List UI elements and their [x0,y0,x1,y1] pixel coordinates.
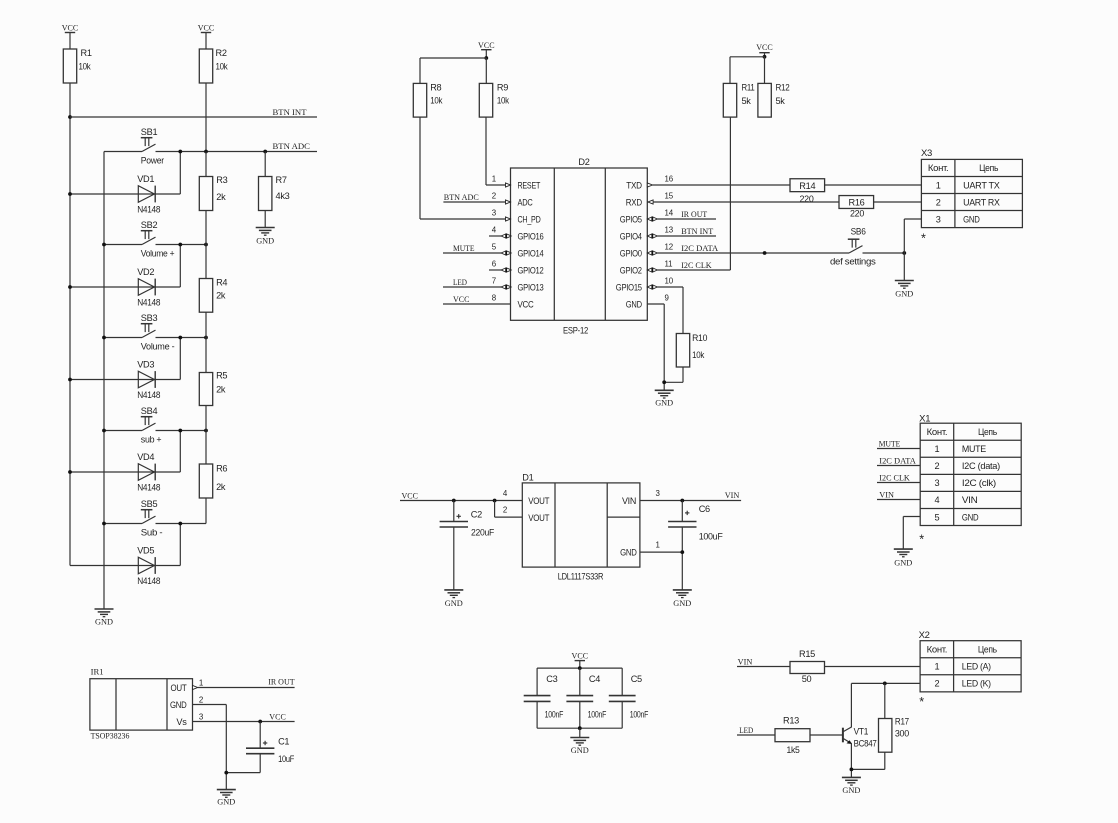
wire decoupling bottom rail [537,727,622,729]
pin label RXD [626,197,643,207]
resistor R14 [790,179,825,204]
svg-text:UART TX: UART TX [963,180,1000,190]
wire R1 bus vertical [69,83,71,566]
svg-text:Vs: Vs [176,717,187,727]
wire net VIN to X1 [877,490,920,500]
svg-text:LDL1117S33R: LDL1117S33R [558,572,604,582]
wire VT1 emitter to GND [850,744,852,778]
svg-text:220uF: 220uF [471,528,495,538]
svg-text:100uF: 100uF [699,532,723,542]
svg-text:VIN: VIN [622,496,636,506]
svg-text:4k3: 4k3 [276,191,290,201]
pin label GPIO12 [518,265,544,275]
node emitter junction [850,768,854,772]
svg-text:2: 2 [199,696,203,705]
power symbol VCC (R11 R12) [756,42,773,57]
node SB2-R junction [204,243,208,247]
svg-text:1: 1 [656,541,660,550]
svg-text:2k: 2k [216,291,226,301]
svg-text:GND: GND [95,617,113,627]
svg-text:N4148: N4148 [137,390,160,400]
ground (C6) [673,590,692,608]
connector X3 [921,148,1022,246]
switch SB2 [104,220,206,258]
svg-text:X3: X3 [921,148,932,158]
pin label GPIO14 [518,248,544,258]
pin number 15 [665,192,674,201]
diode VD2 [70,245,180,308]
svg-text:10k: 10k [216,61,229,71]
wire Vs pin 3 to VCC [193,712,295,722]
svg-text:10k: 10k [497,95,510,105]
wire net VCC to D1 [400,490,522,500]
power symbol VCC (R2) [198,23,215,50]
wire net I2C DATA GPIO0 pin 12 [647,243,849,255]
wire RXD pin 15 to R16 [648,200,839,204]
capacitor C4 [566,668,606,728]
svg-text:BTN INT: BTN INT [273,107,308,117]
pin number 2 (D1) [503,506,507,515]
pin arrow RESET [506,183,511,187]
svg-text:R15: R15 [799,649,815,659]
svg-text:1: 1 [199,679,203,688]
svg-text:I2C CLK: I2C CLK [681,260,712,270]
svg-text:R14: R14 [799,181,815,191]
svg-text:5: 5 [935,512,940,522]
pin label GPIO0 [620,248,642,258]
svg-text:ESP-12: ESP-12 [563,326,588,336]
svg-text:GPIO2: GPIO2 [620,265,642,275]
svg-text:LED: LED [739,725,753,735]
pin label GPIO5 [620,214,642,224]
svg-text:R2: R2 [216,48,227,58]
switch SB3 [104,313,206,351]
power symbol VCC (C3-C5) [572,651,589,669]
svg-text:RXD: RXD [626,197,643,207]
wire net IR OUT GPIO5 pin 14 [647,209,716,221]
svg-text:I2C (clk): I2C (clk) [962,478,996,488]
pin arrow ADC [506,200,511,204]
node VCC junction (R12) [763,55,767,59]
pin label ADC [518,197,534,207]
svg-text:R16: R16 [849,198,865,208]
capacitor C6 [668,501,723,590]
svg-text:VD5: VD5 [137,545,154,555]
node GND pin 9 junction [662,380,666,384]
svg-text:R17: R17 [895,717,909,727]
svg-text:MUTE: MUTE [453,243,475,253]
node VD4 anode junction [68,470,72,474]
wire net BTN INT [70,107,317,117]
wire R11 to I2C CLK [729,117,731,270]
node VCC junction (R9) [484,56,488,60]
svg-text:MUTE: MUTE [879,439,901,449]
svg-text:GPIO16: GPIO16 [518,231,544,241]
svg-text:X2: X2 [919,630,930,640]
svg-text:GPIO0: GPIO0 [620,248,642,258]
switch SB1 [104,127,164,165]
svg-text:VCC: VCC [62,23,79,33]
pin number 12 [665,243,673,252]
svg-text:220: 220 [850,209,864,219]
wire GND pin 2 (IR1) [193,696,227,790]
svg-text:10k: 10k [79,61,92,71]
resistor R9 [479,83,509,117]
svg-text:GND: GND [655,397,673,407]
svg-text:GND: GND [895,288,913,298]
pin label GPIO2 [620,265,642,275]
svg-text:VD1: VD1 [137,174,154,184]
svg-text:TXD: TXD [626,180,642,190]
svg-text:GPIO5: GPIO5 [620,214,642,224]
svg-text:GND: GND [571,745,589,755]
wire decoupling top rail [537,667,622,669]
svg-text:10uF: 10uF [278,754,295,764]
svg-text:GND: GND [445,598,463,608]
wire net I2C CLK to X1 [877,473,920,483]
svg-text:VT1: VT1 [854,727,869,737]
svg-text:1: 1 [492,175,496,184]
pin number 16 [665,175,674,184]
pin number 4 [492,226,497,235]
svg-text:2: 2 [492,192,496,201]
svg-text:ADC: ADC [518,197,534,207]
svg-text:11: 11 [665,260,673,269]
connector X2 [919,630,1022,709]
wire net BTN ADC [156,141,318,152]
pin number 4 (D1) [503,489,508,498]
resistor R1 [63,48,92,83]
svg-text:X1: X1 [919,414,930,424]
svg-text:N4148: N4148 [137,576,160,586]
switch SB4 [104,406,206,444]
pin label GPIO16 [518,231,544,241]
svg-text:16: 16 [665,175,674,184]
op-amp U1? no - IC D2 ESP-12 box [511,157,648,336]
pin number 9 [665,294,670,303]
svg-text:IR1: IR1 [91,666,104,676]
resistor R11 [723,83,754,117]
svg-text:VCC: VCC [198,23,215,33]
svg-text:SB4: SB4 [141,406,158,416]
svg-text:1: 1 [936,180,941,190]
wire TXD pin 16 to R14 [647,183,790,187]
ground (X3) [895,281,914,299]
svg-text:I2C DATA: I2C DATA [879,456,916,466]
svg-text:IR OUT: IR OUT [268,677,295,687]
svg-text:R7: R7 [276,175,287,185]
wire rail to ground [579,728,581,737]
svg-text:LED (A): LED (A) [962,662,991,672]
node switch bus junction [102,429,106,433]
svg-text:Цепь: Цепь [979,163,998,173]
pin label GPIO4 [620,231,642,241]
resistor R3 [199,152,227,245]
svg-text:1k5: 1k5 [787,745,800,755]
ground (IR1) [217,790,236,807]
svg-text:GPIO13: GPIO13 [518,282,544,292]
capacitor C5 [609,668,649,728]
svg-text:50: 50 [802,674,812,684]
svg-text:R9: R9 [497,83,508,93]
svg-text:sub +: sub + [141,434,162,444]
svg-text:2k: 2k [216,192,226,202]
svg-text:TSOP38236: TSOP38236 [91,731,130,741]
svg-text:3: 3 [935,478,940,488]
svg-text:R3: R3 [216,175,227,185]
svg-text:R13: R13 [783,716,799,726]
pin label RESET [518,180,541,190]
svg-text:GPIO15: GPIO15 [616,282,642,292]
svg-text:100nF: 100nF [588,709,607,719]
node VCC rail junction [578,666,582,670]
node VD3 anode junction [68,378,72,382]
wire net BTN INT GPIO4 pin 13 [647,226,716,238]
svg-text:10k: 10k [692,350,705,360]
node SB3-VD3 junction [178,336,182,340]
svg-text:SB5: SB5 [141,499,158,509]
svg-text:UART RX: UART RX [963,197,1000,207]
svg-text:VD4: VD4 [137,452,154,462]
node SB3-R junction [204,336,208,340]
svg-text:2: 2 [935,461,940,471]
node SB4-R junction [204,429,208,433]
wire R9 to RESET pin 1 [486,117,506,185]
wire net I2C DATA to X1 [877,456,920,466]
svg-text:N4148: N4148 [137,297,160,307]
svg-text:VIN: VIN [738,657,753,667]
svg-text:2: 2 [503,506,507,515]
wire stub GPIO12 pin 6 [489,268,511,273]
wire X3 pin 3 to GND [904,219,921,281]
pin number 13 [665,226,674,235]
svg-text:BTN ADC: BTN ADC [444,192,479,202]
capacitor C1 [226,722,294,773]
svg-text:1: 1 [934,662,939,672]
resistor R13 [775,716,810,756]
svg-text:15: 15 [665,192,674,201]
diode VD3 [70,338,180,400]
svg-text:100nF: 100nF [630,709,649,719]
svg-text:I2C DATA: I2C DATA [681,243,719,253]
svg-text:R11: R11 [742,83,755,93]
wire R13 to VT1 base [810,734,842,736]
pin number 14 [665,209,674,218]
svg-text:C6: C6 [699,504,710,514]
svg-text:BC847: BC847 [854,739,877,749]
svg-text:RESET: RESET [518,180,541,190]
svg-text:GND: GND [620,547,637,557]
svg-text:4: 4 [935,495,940,505]
node C1 to GND junction [224,771,228,775]
resistor R10 [664,333,707,382]
resistor R17 [851,683,909,769]
wire R2 to BTN ADC [205,83,207,152]
svg-text:14: 14 [665,209,674,218]
svg-text:GND: GND [842,785,860,795]
wire R15 to X2 pin 1 [825,666,921,668]
node GND rail junction [578,726,582,730]
svg-text:SB3: SB3 [141,313,158,323]
svg-text:Конт.: Конт. [927,427,948,437]
svg-text:Цепь: Цепь [978,644,997,654]
resistor R15 [790,649,825,684]
svg-text:R4: R4 [216,278,227,288]
node C2 junction [452,499,456,503]
svg-text:BTN INT: BTN INT [681,226,714,236]
svg-text:GND: GND [170,700,187,710]
svg-text:I2C (data): I2C (data) [962,461,1000,471]
pin label VCC [518,299,535,309]
svg-text:OUT: OUT [171,683,188,693]
svg-text:VIN: VIN [962,495,978,505]
svg-text:C1: C1 [278,737,289,747]
svg-text:MUTE: MUTE [962,444,986,454]
capacitor C2 [440,501,495,590]
svg-text:C4: C4 [589,674,600,684]
node switch bus junction [102,522,106,526]
power symbol VCC (R8 R9) [478,40,495,58]
wire VT1 collector to LED K [851,683,920,727]
node BTN INT junction [68,115,72,119]
wire IR OUT pin 1 [193,677,296,690]
svg-text:GND: GND [256,235,274,245]
svg-text:7: 7 [492,277,496,286]
pin label CH_PD [518,214,542,224]
svg-text:2: 2 [934,679,939,689]
svg-text:C3: C3 [546,674,557,684]
wire GND pin 9 [647,304,664,390]
IC IR1 TSOP38236 box [90,666,193,740]
svg-text:D2: D2 [578,157,589,167]
svg-text:R5: R5 [216,371,227,381]
ground (C3-C5) [570,738,589,755]
svg-text:GPIO12: GPIO12 [518,265,544,275]
wire VCC rail to R11 [730,57,765,84]
resistor R7 [259,152,290,228]
svg-text:VIN: VIN [725,490,740,500]
wire R14 to X3 pin 1 [825,184,922,186]
connector X1 [919,414,1021,547]
resistor R16 [839,196,874,219]
svg-text:Volume -: Volume - [141,341,175,351]
svg-text:VCC: VCC [453,294,470,304]
node R7 junction [263,150,267,154]
diode VD1 [70,152,180,215]
ground (C2) [444,590,463,608]
node SB4-VD4 junction [178,429,182,433]
wire VIN pin 3 [640,489,741,501]
node R17 top junction [883,682,887,686]
svg-text:100nF: 100nF [545,709,564,719]
wire VOUT pin 2 branch [495,501,523,518]
svg-text:VIN: VIN [879,490,894,500]
pin number 2 [492,192,496,201]
svg-text:VCC: VCC [478,40,495,50]
wire GND pin 1 [640,541,682,553]
node SB1-VD1 junction [178,150,182,154]
svg-text:VCC: VCC [518,299,535,309]
wire net VIN to R15 [737,657,790,667]
wire net BTN ADC to ADC pin 2 [443,192,505,202]
svg-text:VCC: VCC [572,651,589,661]
resistor R6 [199,431,227,524]
svg-text:SB1: SB1 [141,127,158,137]
pin number 8 [492,294,497,303]
node switch bus junction [102,243,106,247]
pin arrow CH_PD [506,217,511,221]
switch SB6 [830,227,904,267]
node SB2-VD2 junction [178,243,182,247]
wire GPIO15 pin 10 to R10 [647,285,683,334]
wire stub GPIO16 pin 4 [489,234,511,239]
wire R8 to CH_PD pin 3 [420,117,506,219]
svg-text:5k: 5k [742,96,752,106]
svg-text:2k: 2k [216,385,226,395]
node SB6 to GND junction [902,251,906,255]
resistor R2 [199,48,228,83]
svg-text:12: 12 [665,243,673,252]
pin label GPIO13 [518,282,544,292]
svg-text:VOUT: VOUT [528,496,550,506]
node switch bus junction [102,336,106,340]
svg-text:VD2: VD2 [137,267,154,277]
wire net LED to GPIO13 pin 7 [443,277,511,289]
svg-text:Конт.: Конт. [927,644,948,654]
svg-text:Volume +: Volume + [141,248,175,258]
node VOUT branch junction [493,499,497,503]
node SB1-R3 junction [204,150,208,154]
wire net I2C CLK GPIO2 pin 11 [647,260,730,272]
svg-text:GND: GND [673,598,691,608]
svg-text:N4148: N4148 [137,204,160,214]
svg-text:VCC: VCC [269,712,286,722]
svg-text:Конт.: Конт. [928,163,949,173]
diode VD4 [70,431,180,493]
svg-text:2: 2 [936,197,941,207]
svg-text:Power: Power [141,155,164,165]
svg-text:Цепь: Цепь [978,427,997,437]
wire switch common bus [103,152,105,610]
svg-text:BTN ADC: BTN ADC [273,141,311,151]
pin number 5 [492,243,497,252]
diode VD5 [70,524,180,586]
pin number 11 [665,260,673,269]
svg-text:SB6: SB6 [851,227,866,237]
svg-text:GND: GND [963,214,980,224]
svg-text:3: 3 [936,214,941,224]
wire net MUTE to X1 [877,439,920,449]
svg-text:I2C CLK: I2C CLK [879,473,910,483]
svg-text:D1: D1 [522,473,533,483]
svg-text:GND: GND [217,797,235,807]
node R12 to I2C DATA junction [763,251,767,255]
pin number 7 [492,277,496,286]
svg-text:IR OUT: IR OUT [681,209,708,219]
resistor R8 [413,83,443,117]
capacitor C3 [524,668,564,728]
svg-text:R6: R6 [216,464,227,474]
ground (X1) [894,549,913,567]
svg-text:2k: 2k [216,482,226,492]
pin label GND [626,299,643,309]
node VD2 anode junction [68,285,72,289]
svg-text:R1: R1 [81,48,92,58]
svg-text:VOUT: VOUT [528,513,550,523]
wire R16 to X3 pin 2 [874,201,921,203]
svg-text:CH_PD: CH_PD [518,214,542,224]
node C6 bottom junction [680,550,684,554]
